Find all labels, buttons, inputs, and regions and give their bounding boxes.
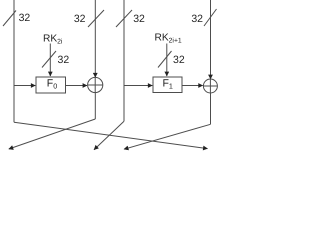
svg-text:32: 32 [74,13,86,25]
wire: XOR1 diagonal to output position 1 [9,119,96,149]
wire: XOR2 diagonal to output position 3 [124,124,211,149]
wire: F0 output to XOR1 [66,85,88,87]
wire: branch P1 input vertical (arrow into XOR1) [94,0,96,77]
bus-width slash P1 [88,10,104,27]
wire: XOR1 output down [94,93,96,119]
wire: XOR2 output down [210,93,212,124]
xor gate XOR1 [88,77,103,92]
wire: P2 feed into F1 [124,85,152,87]
svg-text:32: 32 [133,13,145,25]
svg-text:RK2i: RK2i [43,34,63,46]
svg-text:32: 32 [173,54,185,66]
wire: branch P0 input vertical [13,0,15,122]
bus-width slash RK2i [42,51,56,68]
wire: P2 diagonal to output position 2 [94,121,124,149]
bus-width slash P2 [116,10,132,27]
svg-text:RK2i+1: RK2i+1 [155,33,182,45]
bus-width slash P0 [3,11,16,27]
function block F0 [36,77,66,93]
svg-text:32: 32 [58,54,70,66]
svg-text:32: 32 [191,13,203,25]
wire: P0 diagonal to output position 4 [14,122,208,148]
function block F1 [153,77,182,93]
wire: branch P2 input vertical [123,0,125,121]
xor gate XOR2 [203,79,217,93]
svg-text:32: 32 [19,12,31,24]
wire: F1 output to XOR2 [182,85,203,87]
wire: P0 feed into F0 [14,85,35,87]
wire: RK2i arrow into F0 [49,44,51,77]
wire: branch P3 input vertical (arrow into XOR2) [210,0,212,79]
bus-width slash P3 [204,9,217,26]
bus-width slash RK2i+1 [158,51,172,68]
wire: RK2i+1 arrow into F1 [166,44,168,77]
